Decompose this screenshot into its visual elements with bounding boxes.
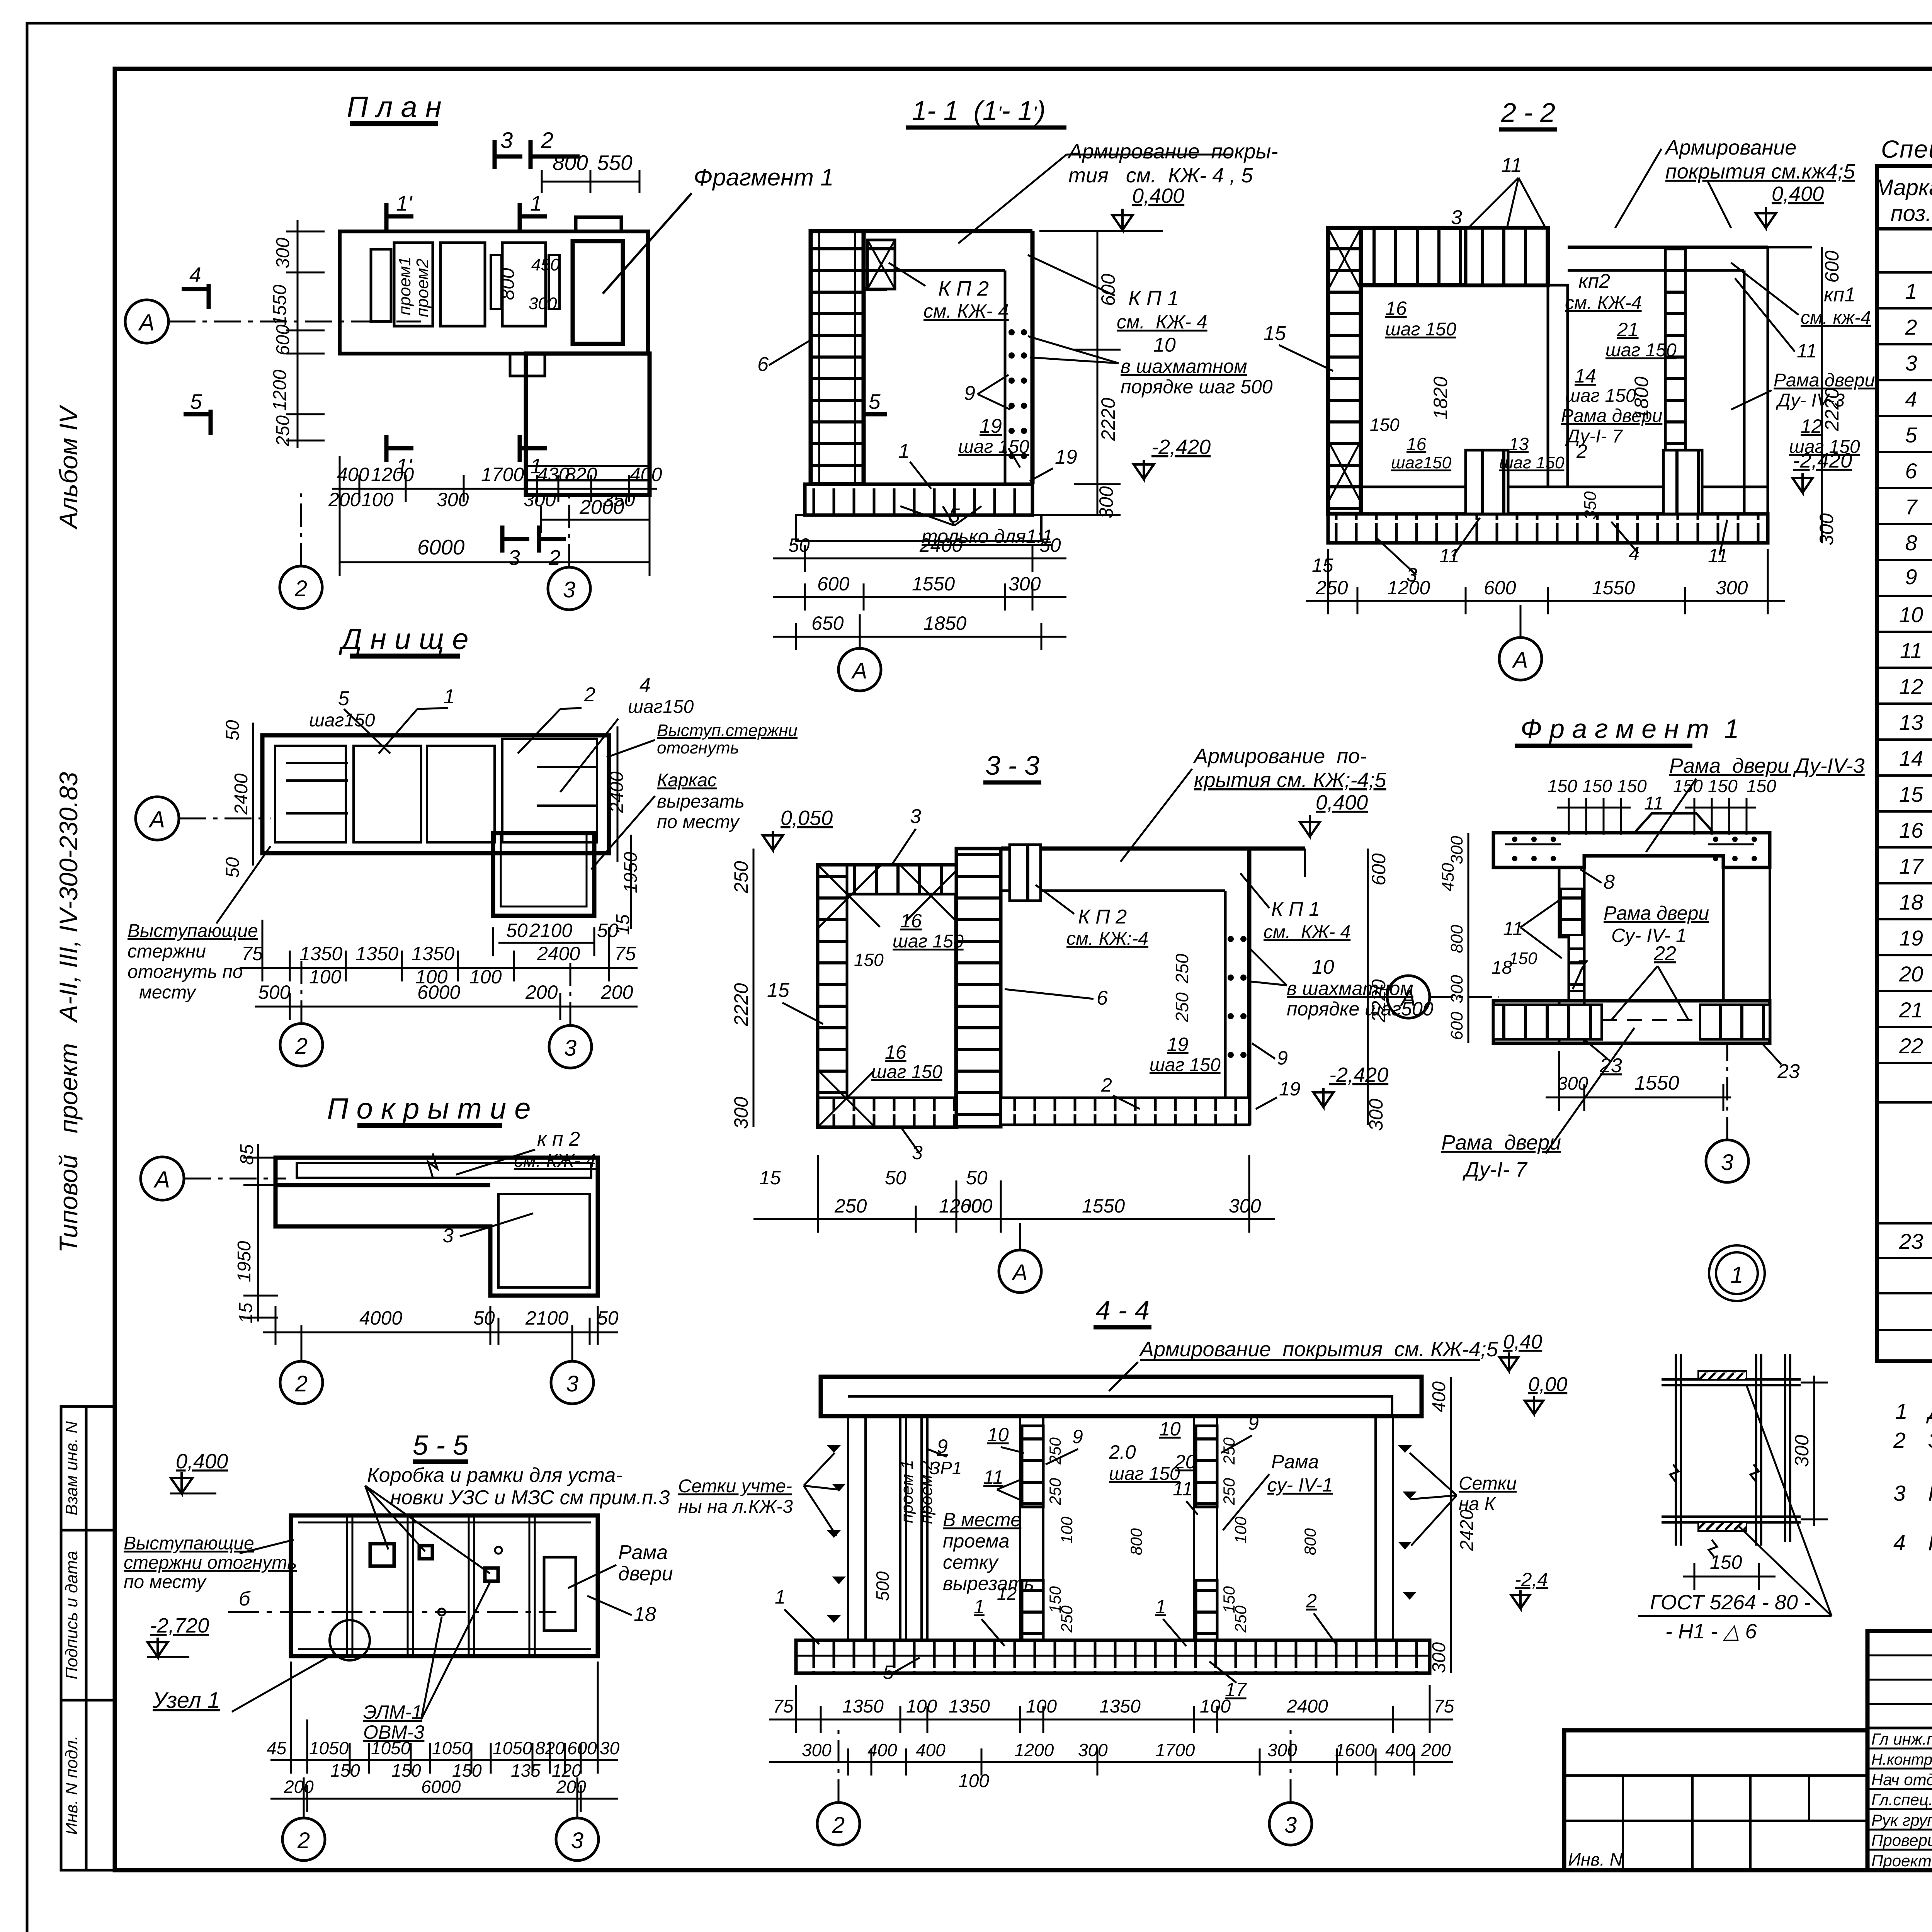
- svg-text:3: 3: [563, 577, 575, 602]
- svg-text:Закладные детали установить: Закладные детали установить в соответств…: [1928, 1428, 1932, 1453]
- plan: axis circle A: [125, 300, 168, 343]
- svg-text:6: 6: [1905, 459, 1917, 483]
- svg-text:11: 11: [1173, 1478, 1193, 1500]
- bottom dims: [270, 1662, 618, 1812]
- svg-text:3: 3: [1451, 206, 1462, 229]
- svg-text:1700: 1700: [1155, 1740, 1195, 1760]
- svg-text:250: 250: [1315, 577, 1348, 599]
- svg-text:см. кж-4: см. кж-4: [1801, 308, 1871, 328]
- svg-text:400: 400: [916, 1740, 946, 1760]
- 4-4: axis circle 3: [1269, 1803, 1312, 1845]
- svg-text:проем2: проем2: [413, 259, 432, 317]
- interior blocks: [371, 249, 391, 321]
- svg-text:3: 3: [508, 546, 520, 570]
- svg-text:2: 2: [295, 1371, 308, 1396]
- svg-text:100: 100: [1200, 1696, 1231, 1717]
- svg-text:2420: 2420: [1457, 1509, 1477, 1551]
- svg-text:кп2: кп2: [1578, 270, 1610, 293]
- svg-text:3: 3: [1721, 1150, 1733, 1175]
- plan: axis circle 2: [280, 566, 322, 609]
- svg-text:150: 150: [391, 1760, 421, 1781]
- svg-text:Разбивка анкеров рам дверей: Разбивка анкеров рам дверей Ду-I-7 и Ду-…: [1928, 1531, 1932, 1555]
- 3-3: axis circle A: [999, 1250, 1041, 1293]
- svg-text:2400: 2400: [1286, 1696, 1328, 1717]
- svg-text:А: А: [1400, 986, 1416, 1011]
- svg-text:шаг150: шаг150: [628, 697, 694, 717]
- svg-text:16: 16: [885, 1041, 906, 1063]
- svg-text:100: 100: [309, 966, 342, 988]
- bottom dim rows: [769, 1685, 1453, 1776]
- dnishche: axis circle 3: [549, 1026, 592, 1068]
- svg-text:0,400: 0,400: [1132, 184, 1184, 207]
- svg-text:15: 15: [759, 1167, 781, 1189]
- svg-text:600: 600: [273, 325, 293, 355]
- svg-text:Выступ.стержни: Выступ.стержни: [657, 721, 798, 740]
- central door wall column: [1559, 867, 1569, 1043]
- svg-text:13: 13: [1899, 710, 1923, 735]
- svg-text:50: 50: [506, 920, 528, 941]
- svg-text:1200: 1200: [1014, 1740, 1054, 1760]
- svg-text:Армирование по-: Армирование по-: [1193, 745, 1367, 768]
- svg-text:проем 1: проем 1: [898, 1460, 917, 1523]
- svg-text:300: 300: [1095, 486, 1117, 519]
- svg-text:400: 400: [630, 464, 662, 485]
- svg-text:проем1: проем1: [395, 257, 414, 315]
- foundation: [796, 515, 1041, 541]
- svg-text:150: 150: [1509, 949, 1537, 968]
- svg-text:2400: 2400: [231, 773, 252, 815]
- svg-text:8: 8: [1905, 531, 1917, 555]
- bottom slab right: [1001, 1098, 1249, 1125]
- svg-text:75: 75: [773, 1696, 794, 1717]
- svg-text:шаг 150: шаг 150: [958, 437, 1029, 457]
- svg-text:4 - 4: 4 - 4: [1095, 1295, 1150, 1325]
- bottom dims: [753, 1155, 1275, 1233]
- 2-2: top reinforcement band: [1361, 228, 1548, 285]
- svg-text:шаг 150: шаг 150: [1150, 1055, 1221, 1075]
- svg-text:600: 600: [1447, 1012, 1466, 1040]
- svg-text:9: 9: [964, 382, 975, 405]
- left section rows: [1867, 1655, 1932, 1656]
- 5-5: wall outline: [291, 1515, 598, 1656]
- svg-text:100: 100: [1058, 1516, 1076, 1544]
- 1-1: reinforcement cage column KP9: [811, 231, 864, 484]
- fragment1: axis circle 3: [1706, 1140, 1748, 1182]
- wall verticals: [848, 1416, 1393, 1640]
- svg-text:75: 75: [241, 943, 263, 964]
- table rows text: [1899, 279, 1932, 1253]
- arrows inside left panel: [286, 763, 597, 813]
- svg-text:3: 3: [571, 1828, 583, 1853]
- svg-text:50: 50: [473, 1307, 495, 1329]
- anchor hatched blocks: [1022, 1426, 1043, 1507]
- svg-text:450: 450: [1439, 863, 1458, 891]
- svg-text:К П 2: К П 2: [938, 277, 989, 300]
- svg-text:19: 19: [1055, 446, 1077, 468]
- svg-text:500: 500: [258, 981, 291, 1003]
- svg-text:-2,720: -2,720: [150, 1614, 209, 1637]
- svg-text:сетку: сетку: [943, 1551, 999, 1573]
- svg-text:300: 300: [524, 489, 556, 510]
- svg-text:новки УЗС и МЗС см прим.п.3: новки УЗС и МЗС см прим.п.3: [390, 1486, 670, 1509]
- svg-text:600: 600: [1368, 853, 1389, 886]
- svg-text:300: 300: [437, 489, 469, 510]
- svg-text:11: 11: [1503, 918, 1523, 939]
- small boxes: [370, 1544, 394, 1566]
- svg-text:1050: 1050: [432, 1738, 472, 1758]
- bottom dims: [1546, 1051, 1731, 1111]
- svg-text:200: 200: [600, 981, 633, 1003]
- svg-text:5: 5: [869, 389, 881, 413]
- svg-text:3: 3: [910, 805, 921, 828]
- svg-text:А: А: [851, 658, 867, 684]
- svg-text:15: 15: [1264, 322, 1286, 345]
- svg-text:150: 150: [1673, 776, 1703, 796]
- svg-text:А: А: [153, 1167, 170, 1192]
- svg-text:Сетки учте-: Сетки учте-: [678, 1476, 792, 1497]
- svg-text:550: 550: [597, 151, 633, 175]
- svg-text:шаг 150: шаг 150: [893, 931, 964, 952]
- svg-text:6000: 6000: [417, 981, 460, 1003]
- svg-text:250: 250: [834, 1195, 867, 1217]
- svg-text:50: 50: [223, 857, 243, 878]
- plan: wall band outline: [340, 231, 648, 354]
- right dims: [1821, 247, 1823, 543]
- svg-text:1950: 1950: [234, 1241, 255, 1282]
- svg-text:22: 22: [1899, 1034, 1923, 1058]
- dotted mesh columns left/right: [827, 1445, 1417, 1623]
- small ladder block top: [867, 240, 895, 289]
- svg-text:600: 600: [960, 1195, 993, 1217]
- svg-text:1550: 1550: [1082, 1195, 1125, 1217]
- svg-text:2100: 2100: [529, 920, 572, 941]
- svg-text:150: 150: [1582, 776, 1612, 796]
- svg-text:2: 2: [541, 128, 553, 153]
- svg-text:100: 100: [1231, 1516, 1250, 1544]
- 5-5: axis circle 2: [282, 1818, 325, 1861]
- lower right room: [526, 354, 650, 495]
- svg-text:2: 2: [1893, 1428, 1906, 1453]
- dnishche: slab outline: [262, 735, 609, 853]
- svg-text:500: 500: [872, 1571, 893, 1601]
- svg-text:Каркас: Каркас: [657, 770, 717, 791]
- svg-text:1: 1: [1895, 1399, 1908, 1424]
- detail mark circle 1: [1709, 1245, 1765, 1301]
- svg-text:Фрагмент 1: Фрагмент 1: [694, 164, 834, 191]
- svg-text:5: 5: [338, 687, 350, 710]
- svg-text:1550: 1550: [270, 284, 290, 326]
- svg-text:150: 150: [1708, 776, 1738, 796]
- svg-text:100: 100: [1026, 1696, 1057, 1717]
- svg-text:3: 3: [566, 1371, 578, 1396]
- svg-text:шаг 150: шаг 150: [871, 1062, 942, 1082]
- svg-text:1550: 1550: [912, 573, 955, 595]
- svg-text:10: 10: [987, 1424, 1009, 1446]
- left dims rotated: [270, 238, 293, 447]
- svg-text:30: 30: [600, 1738, 620, 1758]
- svg-text:50: 50: [788, 534, 810, 556]
- svg-text:50: 50: [885, 1167, 906, 1189]
- svg-text:стержни отогнуть: стержни отогнуть: [124, 1553, 297, 1573]
- header underline: [1877, 227, 1932, 231]
- section marks 1' and 1 above band: [386, 203, 547, 230]
- svg-text:0,00: 0,00: [1528, 1373, 1567, 1396]
- svg-text:1800: 1800: [1631, 376, 1652, 419]
- svg-text:20: 20: [1174, 1451, 1196, 1473]
- svg-text:Инв. N: Инв. N: [1568, 1849, 1623, 1869]
- svg-text:Армирование покры-: Армирование покры-: [1067, 140, 1278, 163]
- Сетки учтены texts: [804, 1453, 838, 1536]
- pilaster above band right: [576, 217, 621, 231]
- svg-text:16: 16: [900, 910, 922, 932]
- svg-text:12: 12: [1801, 415, 1822, 437]
- svg-text:7: 7: [1905, 495, 1918, 519]
- right column: [1224, 891, 1227, 1097]
- 6000 dim: [340, 561, 650, 563]
- svg-text:Альбом IV: Альбом IV: [54, 404, 83, 530]
- svg-text:В месте: В месте: [943, 1509, 1021, 1531]
- svg-text:250: 250: [1220, 1478, 1238, 1505]
- svg-text:см. КЖ- 4: см. КЖ- 4: [514, 1151, 596, 1171]
- lower right rect: [493, 833, 594, 916]
- svg-text:150: 150: [1548, 776, 1577, 796]
- svg-text:250: 250: [1172, 992, 1192, 1022]
- svg-text:3: 3: [564, 1036, 577, 1061]
- right dims: [1097, 231, 1099, 515]
- svg-text:2: 2: [548, 546, 561, 570]
- svg-text:400: 400: [1385, 1740, 1415, 1760]
- svg-text:вырезать: вырезать: [657, 791, 745, 812]
- svg-text:Спецификация элементов к схе: Спецификация элементов к схемам располож…: [1881, 135, 1932, 163]
- svg-text:19: 19: [980, 415, 1002, 437]
- svg-text:А: А: [1512, 648, 1528, 673]
- svg-text:300: 300: [1365, 1099, 1387, 1131]
- svg-text:порядке шаг 500: порядке шаг 500: [1121, 376, 1273, 398]
- svg-text:Выступающие: Выступающие: [128, 921, 258, 941]
- top dims 150x3 left/right: [1548, 776, 1776, 796]
- svg-text:85: 85: [237, 1144, 257, 1165]
- 300 dim right: [1813, 1376, 1815, 1526]
- svg-text:250: 250: [1058, 1605, 1076, 1633]
- svg-text:600: 600: [1484, 577, 1516, 599]
- svg-text:см. КЖ- 4: см. КЖ- 4: [1264, 922, 1350, 942]
- svg-text:300: 300: [1429, 1642, 1449, 1673]
- svg-text:50: 50: [1039, 534, 1061, 556]
- door column dots: [1009, 329, 1027, 459]
- pokrytie: axis circle 3: [551, 1361, 594, 1404]
- svg-text:4: 4: [189, 263, 201, 287]
- svg-text:150: 150: [1370, 415, 1400, 435]
- svg-text:- Н1 - △ 6: - Н1 - △ 6: [1665, 1620, 1757, 1643]
- svg-text:13: 13: [1509, 434, 1529, 454]
- svg-text:0,400: 0,400: [1772, 182, 1824, 206]
- svg-text:300: 300: [1447, 975, 1466, 1003]
- door frame: [544, 1557, 576, 1631]
- svg-text:10: 10: [1159, 1418, 1181, 1440]
- svg-text:Нач отд.: Нач отд.: [1871, 1770, 1932, 1789]
- svg-text:ны на л.КЖ-3: ны на л.КЖ-3: [678, 1497, 793, 1517]
- svg-text:50: 50: [223, 720, 243, 741]
- svg-text:11: 11: [1900, 638, 1922, 663]
- svg-text:К П 1: К П 1: [1271, 898, 1320, 920]
- svg-text:5: 5: [883, 1662, 894, 1683]
- svg-text:1: 1: [1905, 279, 1917, 303]
- svg-text:200: 200: [328, 489, 361, 510]
- Выступающие стержни text: [128, 921, 258, 1003]
- svg-text:6: 6: [1097, 987, 1108, 1009]
- svg-text:2: 2: [1905, 315, 1917, 339]
- marks 4 4 sides: [182, 284, 887, 309]
- svg-text:18: 18: [634, 1603, 656, 1626]
- svg-text:4: 4: [639, 674, 651, 696]
- svg-text:9: 9: [1277, 1047, 1288, 1069]
- svg-text:0,050: 0,050: [781, 806, 833, 830]
- svg-text:11: 11: [1644, 793, 1663, 814]
- svg-text:350: 350: [1581, 491, 1600, 520]
- svg-text:200: 200: [1421, 1740, 1451, 1760]
- svg-text:250: 250: [1172, 954, 1192, 984]
- svg-text:250: 250: [730, 861, 752, 894]
- svg-text:11: 11: [983, 1466, 1003, 1488]
- 2-2: bottom slab: [1328, 514, 1768, 543]
- svg-text:месту: месту: [139, 982, 197, 1003]
- 3-3: central reinforcement column: [956, 849, 1001, 1127]
- svg-text:11: 11: [1439, 545, 1459, 566]
- left margin stamp boxes: [61, 1406, 115, 1870]
- svg-text:75: 75: [1434, 1696, 1454, 1717]
- svg-text:15: 15: [767, 979, 790, 1002]
- svg-text:200: 200: [525, 981, 558, 1003]
- svg-text:15: 15: [236, 1303, 256, 1323]
- svg-text:1: 1: [1730, 1262, 1743, 1288]
- svg-text:б: б: [239, 1588, 251, 1610]
- svg-text:двери: двери: [618, 1563, 673, 1585]
- svg-text:1050: 1050: [493, 1738, 532, 1758]
- svg-text:шаг 150: шаг 150: [1109, 1464, 1180, 1484]
- door columns: [1548, 285, 1568, 487]
- svg-text:2: 2: [832, 1813, 845, 1838]
- right slab: [1568, 246, 1768, 249]
- svg-text:1350: 1350: [842, 1696, 884, 1717]
- svg-text:1050: 1050: [309, 1738, 349, 1758]
- svg-text:21: 21: [1617, 319, 1639, 340]
- svg-text:Узел 1: Узел 1: [152, 1688, 220, 1713]
- svg-text:2: 2: [1576, 440, 1587, 462]
- pokrytie: axis circle 2: [280, 1361, 323, 1404]
- room inner edges: [1361, 284, 1466, 287]
- svg-text:12: 12: [1899, 674, 1923, 699]
- svg-text:-2,4: -2,4: [1515, 1569, 1548, 1590]
- svg-text:1550: 1550: [1592, 577, 1635, 599]
- svg-text:2: 2: [294, 576, 307, 601]
- svg-text:проема: проема: [943, 1530, 1009, 1552]
- svg-text:3: 3: [1905, 351, 1917, 375]
- svg-text:135: 135: [511, 1760, 541, 1781]
- header texts: [1874, 175, 1932, 226]
- svg-text:820: 820: [535, 1738, 565, 1758]
- svg-text:1200: 1200: [371, 464, 414, 485]
- svg-text:15: 15: [1899, 782, 1923, 806]
- svg-text:4000: 4000: [359, 1307, 402, 1329]
- 4-4: axis circle 2: [817, 1803, 860, 1845]
- Каркас вырезать по месту (right): [657, 770, 745, 832]
- svg-text:Рама двери: Рама двери: [1604, 902, 1709, 924]
- svg-text:19: 19: [1167, 1034, 1189, 1055]
- left dims rotated: [1468, 833, 1469, 1043]
- 2-2: left reinforcement column: [1328, 228, 1361, 514]
- svg-text:Рама: Рама: [1271, 1451, 1319, 1473]
- svg-text:К П 2: К П 2: [1078, 906, 1127, 928]
- svg-text:см. КЖ- 4: см. КЖ- 4: [923, 300, 1009, 322]
- svg-text:Проектир.: Проектир.: [1871, 1852, 1932, 1870]
- svg-text:11: 11: [1501, 154, 1522, 177]
- svg-text:300: 300: [1791, 1435, 1813, 1467]
- svg-text:9: 9: [1072, 1426, 1083, 1447]
- pokrytie: slab outline: [276, 1158, 598, 1296]
- dnishche: axis circle 2: [280, 1024, 323, 1066]
- svg-text:1350: 1350: [1099, 1696, 1141, 1717]
- svg-text:200: 200: [284, 1777, 314, 1797]
- svg-text:19: 19: [1899, 926, 1923, 950]
- svg-text:к п 2: к п 2: [537, 1128, 580, 1150]
- svg-text:150: 150: [1710, 1551, 1742, 1573]
- svg-text:300: 300: [1229, 1195, 1261, 1217]
- svg-text:800: 800: [497, 268, 518, 300]
- svg-text:14: 14: [1899, 746, 1923, 770]
- svg-text:по месту: по месту: [124, 1572, 207, 1592]
- svg-text:10: 10: [1899, 602, 1923, 627]
- outer: [1877, 166, 1932, 1361]
- svg-text:шаг 150: шаг 150: [1605, 340, 1677, 361]
- svg-text:1: 1: [775, 1586, 786, 1608]
- svg-text:Ф р а г м е н т 1: Ф р а г м е н т 1: [1520, 714, 1739, 744]
- svg-text:1: 1: [530, 191, 542, 215]
- svg-text:3 - 3: 3 - 3: [985, 750, 1039, 781]
- 1-1: axis circle A: [838, 648, 881, 691]
- svg-text:20: 20: [1899, 962, 1923, 986]
- svg-text:Коробки для УЗС и рамки дл: Коробки для УЗС и рамки для МЗС установи…: [1928, 1481, 1932, 1506]
- svg-text:1350: 1350: [949, 1696, 990, 1717]
- svg-text:Гл инж.пр: Гл инж.пр: [1871, 1730, 1932, 1748]
- svg-text:Сетки: Сетки: [1459, 1473, 1517, 1494]
- svg-text:250: 250: [1231, 1605, 1250, 1633]
- 150 dim bottom: [1683, 1576, 1776, 1578]
- svg-text:2 - 2: 2 - 2: [1501, 97, 1555, 128]
- pokrytie: axis circle A: [141, 1157, 184, 1200]
- bottom dims: [773, 545, 1066, 650]
- svg-text:2: 2: [1306, 1590, 1317, 1612]
- svg-text:800: 800: [1127, 1528, 1145, 1555]
- break zigzag on top: [428, 1153, 437, 1177]
- svg-text:300: 300: [1078, 1740, 1108, 1760]
- svg-text:0,400: 0,400: [1316, 791, 1368, 814]
- svg-text:300: 300: [1557, 1073, 1588, 1094]
- svg-text:ЭЛМ-1: ЭЛМ-1: [363, 1701, 422, 1723]
- svg-text:Инв. N подл.: Инв. N подл.: [62, 1735, 81, 1835]
- svg-text:300: 300: [529, 294, 557, 313]
- svg-text:820: 820: [565, 464, 597, 485]
- svg-text:А: А: [1012, 1260, 1028, 1285]
- svg-text:1': 1': [396, 191, 413, 215]
- dnishche: axis circle A: [136, 797, 179, 840]
- marks 3 2 bottom: [502, 526, 566, 553]
- break marks: [1670, 1464, 1679, 1481]
- svg-text:Ду-I- 7: Ду-I- 7: [1463, 1158, 1528, 1181]
- svg-text:6: 6: [757, 353, 769, 376]
- svg-text:Армирование покрытия см. КЖ-: Армирование покрытия см. КЖ-4;5: [1139, 1338, 1498, 1361]
- svg-text:150: 150: [1747, 776, 1776, 796]
- svg-text:6000: 6000: [417, 535, 465, 559]
